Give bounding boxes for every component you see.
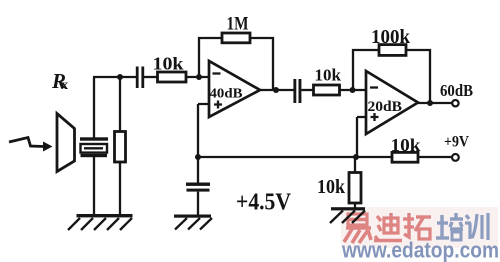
- arrow (sound wave into receiver): [9, 138, 44, 147]
- resistor R1 10k: [158, 72, 187, 82]
- ground (R3): [331, 207, 365, 210]
- wire U2 plus input: [357, 117, 366, 157]
- node U1 output: [273, 87, 279, 93]
- svg-text:+4.5V: +4.5V: [236, 189, 291, 216]
- watermark character 训: [465, 213, 488, 240]
- node op1 inverting input: [196, 74, 202, 80]
- wire U2 output: [418, 102, 452, 104]
- wire resistor branch down: [119, 77, 121, 132]
- op-amp U1: [209, 61, 260, 117]
- svg-text:100k: 100k: [371, 26, 411, 48]
- node junction on input rail: [117, 74, 123, 80]
- resistor R2 10k: [314, 85, 340, 95]
- wire C1 to R1: [144, 76, 158, 78]
- plus sign U1: [214, 101, 222, 109]
- resistor R4 10k on supply: [392, 152, 418, 162]
- minus sign U1: [213, 72, 221, 74]
- watermark character 迪: [374, 213, 402, 241]
- wire R2 to U2: [340, 89, 367, 91]
- ground (decoupling cap): [174, 215, 211, 218]
- wire U1 output: [259, 89, 294, 91]
- terminal +9V: [452, 154, 459, 161]
- svg-text:x: x: [61, 78, 68, 93]
- wire cap to ground: [197, 192, 199, 215]
- node U2 output: [427, 100, 433, 106]
- resistor 1M feedback: [222, 33, 250, 43]
- wire input rail: [93, 76, 137, 78]
- svg-text:40dB: 40dB: [210, 86, 243, 101]
- resistor R3 10k vertical: [349, 173, 361, 204]
- wire R4 to terminal: [418, 156, 452, 158]
- wire feedback loop 2: [353, 50, 430, 103]
- wire feedback loop 1: [199, 38, 273, 90]
- svg-text:10k: 10k: [391, 135, 421, 155]
- watermark haze: [341, 207, 498, 248]
- wire node to R3: [354, 157, 356, 173]
- minus sign U2: [370, 86, 378, 88]
- wire C2 to R2: [301, 89, 314, 91]
- resistor (mic load, vertical): [115, 132, 126, 163]
- svg-text:60dB: 60dB: [440, 81, 473, 100]
- svg-text:10k: 10k: [153, 54, 184, 74]
- capacitor (4.5V decoupling): [186, 183, 210, 186]
- wire resistor to ground: [119, 162, 121, 215]
- transducer Rx plates: [80, 137, 108, 140]
- svg-text:10k: 10k: [315, 66, 342, 85]
- wire R1 to op-amp: [186, 76, 209, 78]
- wire +4.5V rail: [198, 156, 392, 158]
- ground (mic): [77, 214, 133, 217]
- wire mic top stem: [93, 77, 95, 138]
- wire mic bottom stem: [93, 157, 95, 215]
- watermark character 拓: [403, 213, 431, 239]
- wire U1 plus input: [198, 104, 209, 184]
- node U2 inverting input: [350, 87, 356, 93]
- svg-text:+9V: +9V: [444, 134, 470, 151]
- watermark character 易: [344, 214, 371, 243]
- watermark character 培: [436, 213, 463, 240]
- svg-text:10k: 10k: [317, 176, 346, 198]
- svg-text:www.edatop.com: www.edatop.com: [341, 238, 499, 262]
- op-amp U2: [366, 71, 418, 134]
- transducer horn: [57, 114, 75, 172]
- capacitor C2 (interstage coupling): [293, 79, 296, 103]
- svg-text:1M: 1M: [227, 14, 249, 35]
- terminal 60dB output: [452, 100, 458, 106]
- resistor 100k feedback: [379, 45, 406, 56]
- capacitor C1 (coupling): [136, 67, 139, 89]
- node on 4.5V rail left: [195, 154, 201, 160]
- plus sign U2: [371, 113, 379, 121]
- wire R3 to ground: [354, 203, 356, 208]
- node on 4.5V rail right: [353, 154, 359, 160]
- svg-text:20dB: 20dB: [368, 99, 403, 115]
